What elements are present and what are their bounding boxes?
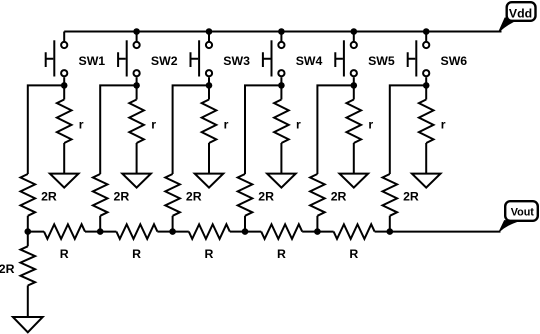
wire r branch 2 to arrow [136, 143, 138, 174]
svg-text:2R: 2R [331, 189, 347, 203]
svg-text:2R: 2R [0, 262, 15, 276]
svg-text:r: r [224, 117, 229, 131]
wire branch node 4 to 2R [245, 85, 281, 174]
switch SW1 [46, 40, 106, 76]
svg-text:R: R [132, 247, 141, 261]
svg-text:r: r [368, 117, 373, 131]
junction top rail at SW3 [206, 28, 213, 35]
wire bottom node 1 to terminator 2R [27, 232, 29, 247]
wire branch node 1 to r [63, 85, 65, 99]
wire r branch 6 to arrow [425, 143, 427, 174]
wire branch node 3 to r [208, 85, 210, 99]
svg-text:SW4: SW4 [296, 54, 323, 68]
junction branch node 6 [423, 82, 430, 89]
ground arrow branch 3 [195, 174, 224, 188]
wire SW1 to branch node [63, 77, 65, 85]
svg-text:r: r [296, 117, 301, 131]
wire branch node 5 to r [353, 85, 355, 99]
resistor r (branch 4) [274, 100, 301, 144]
switch SW3 [191, 40, 251, 76]
resistor 2R (branch 4) [238, 174, 274, 216]
wire branch node 4 to r [280, 85, 282, 99]
resistor r (branch 1) [57, 100, 84, 144]
wire branch node 3 to 2R [173, 85, 209, 174]
svg-text:2R: 2R [258, 189, 274, 203]
svg-text:2R: 2R [403, 189, 419, 203]
svg-text:SW5: SW5 [368, 54, 395, 68]
wire SW5 to branch node [353, 77, 355, 85]
wire 2R branch 2 to bottom rail [99, 216, 101, 232]
junction branch node 4 [278, 82, 285, 89]
junction branch node 5 [351, 82, 358, 89]
ground arrow branch 6 [412, 174, 441, 188]
ground [13, 317, 43, 332]
resistor r (branch 2) [129, 100, 156, 144]
svg-text:r: r [151, 117, 156, 131]
wire SW4 to branch node [280, 77, 282, 85]
svg-text:SW2: SW2 [151, 54, 178, 68]
wire 2R branch 5 to bottom rail [316, 216, 318, 232]
svg-text:R: R [205, 247, 214, 261]
wire branch node 2 to r [136, 85, 138, 99]
wire r branch 5 to arrow [353, 143, 355, 174]
svg-text:SW1: SW1 [79, 54, 106, 68]
junction top rail at SW4 [278, 28, 285, 35]
resistor 2R (terminator) [0, 246, 35, 285]
junction top rail at SW6 [423, 28, 430, 35]
resistor 2R (branch 5) [310, 174, 346, 216]
wire branch node 6 to 2R [390, 85, 426, 174]
resistor R (between node 4 and node 5) [245, 224, 317, 261]
Vdd power label [499, 2, 536, 32]
ground arrow branch 5 [340, 174, 369, 188]
junction bottom node 2 [97, 228, 104, 235]
resistor R (between node 5 and node 6) [317, 224, 389, 261]
junction bottom node 5 [314, 228, 321, 235]
wire 2R branch 1 to bottom rail [27, 216, 29, 232]
switch SW4 [263, 40, 323, 76]
junction top rail at SW5 [351, 28, 358, 35]
junction bottom node 3 [169, 228, 176, 235]
wire stub top rail to SW2 [136, 32, 138, 42]
ground arrow branch 1 [50, 174, 79, 188]
Vout output label [499, 201, 538, 231]
wire stub top rail to SW5 [353, 32, 355, 42]
ground arrow branch 4 [267, 174, 296, 188]
resistor R (between node 3 and node 4) [173, 224, 245, 261]
wire top rail (Vdd net) [64, 31, 501, 33]
wire stub top rail to SW3 [208, 32, 210, 42]
wire SW6 to branch node [425, 77, 427, 85]
wire SW3 to branch node [208, 77, 210, 85]
wire 2R branch 3 to bottom rail [172, 216, 174, 232]
resistor R (between node 1 and node 2) [28, 224, 100, 261]
svg-text:Vout: Vout [511, 206, 535, 218]
junction bottom node 1 [25, 228, 32, 235]
wire bottom rail to Vout [390, 231, 501, 233]
wire SW2 to branch node [136, 77, 138, 85]
junction branch node 2 [133, 82, 140, 89]
wire stub top rail to SW1 [63, 32, 65, 42]
resistor r (branch 5) [347, 100, 374, 144]
resistor r (branch 3) [202, 100, 229, 144]
wire terminator 2R to ground [27, 286, 29, 318]
svg-text:r: r [79, 117, 84, 131]
wire branch node 2 to 2R [100, 85, 136, 174]
wire branch node 6 to r [425, 85, 427, 99]
svg-text:2R: 2R [114, 189, 130, 203]
junction bottom node 6 [387, 228, 394, 235]
switch SW5 [335, 40, 395, 76]
wire 2R branch 4 to bottom rail [244, 216, 246, 232]
switch SW6 [408, 40, 468, 76]
switch SW2 [118, 40, 178, 76]
resistor 2R (branch 6) [383, 174, 419, 216]
resistor R (between node 2 and node 3) [100, 224, 172, 261]
junction bottom node 4 [242, 228, 249, 235]
ground arrow branch 2 [122, 174, 151, 188]
wire r branch 4 to arrow [280, 143, 282, 174]
junction branch node 1 [61, 82, 68, 89]
resistor 2R (branch 3) [165, 174, 201, 216]
svg-text:r: r [441, 117, 446, 131]
svg-text:Vdd: Vdd [509, 6, 532, 20]
wire r branch 3 to arrow [208, 143, 210, 174]
wire branch node 1 to 2R [28, 85, 64, 174]
junction top rail at SW2 [133, 28, 140, 35]
wire r branch 1 to arrow [63, 143, 65, 174]
resistor r (branch 6) [419, 100, 446, 144]
wire stub top rail to SW4 [280, 32, 282, 42]
svg-text:SW6: SW6 [441, 54, 468, 68]
resistor 2R (branch 1) [21, 174, 57, 216]
svg-text:R: R [349, 247, 358, 261]
wire stub top rail to SW6 [425, 32, 427, 42]
wire 2R branch 6 to bottom rail [389, 216, 391, 232]
svg-text:R: R [277, 247, 286, 261]
resistor 2R (branch 2) [93, 174, 129, 216]
svg-text:SW3: SW3 [223, 54, 250, 68]
svg-text:2R: 2R [41, 189, 57, 203]
junction branch node 3 [206, 82, 213, 89]
svg-text:R: R [60, 247, 69, 261]
wire branch node 5 to 2R [317, 85, 353, 174]
svg-text:2R: 2R [186, 189, 202, 203]
